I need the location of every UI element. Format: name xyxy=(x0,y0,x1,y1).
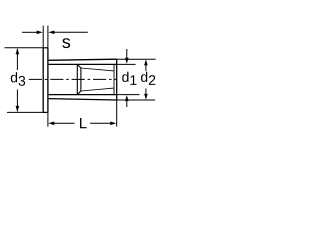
flange bottom edge xyxy=(43,111,49,113)
dimension d3 top extension line xyxy=(5,47,43,49)
cone bottom slant xyxy=(77,91,81,95)
cone top slant xyxy=(77,64,81,68)
dimension s right extension line xyxy=(47,26,49,48)
thread major top extension line xyxy=(117,63,136,65)
outer diameter bottom extension line xyxy=(117,99,156,101)
thread end vertical xyxy=(113,64,115,94)
dimension L line with arrows xyxy=(54,122,75,124)
dimension d2 bottom arrow (inside, pointing down) xyxy=(145,89,147,95)
label d1 xyxy=(122,72,128,82)
label d2 xyxy=(141,72,147,82)
label s xyxy=(62,38,70,48)
dimension d1 bottom arrow (outside, pointing up) xyxy=(126,101,128,107)
thread major bottom extension line xyxy=(117,94,140,96)
dimension L right extension line xyxy=(116,100,118,127)
dimension d1 top arrow (outside, pointing down) xyxy=(126,49,128,58)
flange top edge xyxy=(43,47,49,49)
body top outer line xyxy=(48,59,117,60)
dimension L left extension line (flange right edge extended) xyxy=(47,112,49,126)
dimension s right arrow xyxy=(54,31,88,33)
cone right vertical xyxy=(80,68,82,91)
thread minor top line xyxy=(81,68,114,71)
dimension d3 line with arrows xyxy=(16,49,18,70)
body bottom outer line xyxy=(48,99,117,100)
outer diameter top extension line xyxy=(117,58,156,60)
label L xyxy=(80,118,87,128)
cone left vertical xyxy=(76,64,78,94)
flange right edge xyxy=(47,48,49,113)
flange left edge xyxy=(42,48,44,113)
dimension s left arrow xyxy=(22,31,38,33)
dimension d3 bottom extension line xyxy=(7,111,43,113)
bore / thread major bottom line xyxy=(48,94,117,96)
thread minor bottom line xyxy=(81,88,114,91)
body right end face xyxy=(116,59,118,100)
dimension s left extension line xyxy=(42,26,44,48)
label d3 xyxy=(9,71,25,88)
bore / thread major top line xyxy=(48,63,117,65)
dimension d2 top arrow (inside, pointing up) xyxy=(145,65,147,71)
centerline xyxy=(29,78,117,80)
